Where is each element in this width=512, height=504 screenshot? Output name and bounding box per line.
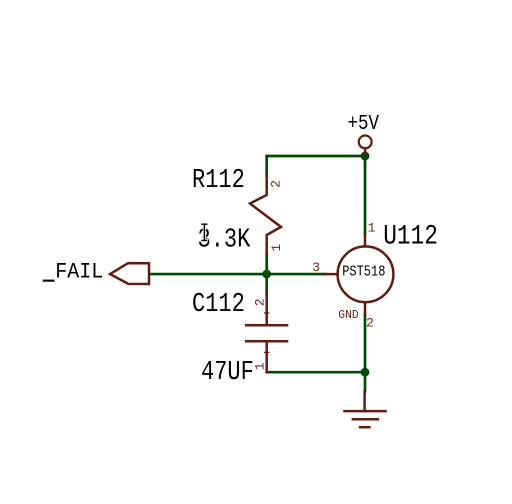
- svg-text:C112: C112: [192, 290, 245, 320]
- svg-text:1: 1: [368, 220, 376, 235]
- svg-text:GND: GND: [338, 308, 358, 322]
- svg-text:U112: U112: [383, 221, 438, 253]
- svg-text:1: 1: [253, 362, 268, 370]
- svg-text:R112: R112: [192, 166, 245, 196]
- svg-text:2: 2: [269, 180, 284, 188]
- svg-text:2: 2: [253, 298, 268, 306]
- svg-text:2: 2: [366, 316, 374, 331]
- svg-text:47UF: 47UF: [201, 358, 254, 388]
- svg-text:3: 3: [312, 260, 320, 275]
- svg-text:FAIL: FAIL: [55, 261, 103, 285]
- svg-text:PST518: PST518: [342, 265, 385, 282]
- svg-text:1: 1: [269, 244, 284, 252]
- svg-text:+5V: +5V: [348, 112, 380, 136]
